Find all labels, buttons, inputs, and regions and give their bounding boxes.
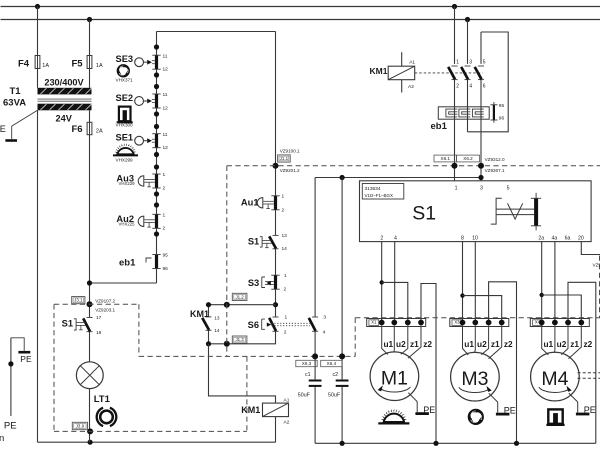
- svg-text:6a: 6a: [565, 235, 571, 241]
- svg-text:SE1: SE1: [116, 133, 134, 143]
- terminal labels X4: [543, 339, 592, 349]
- wire S1-4a to X4 u2: [554, 242, 556, 323]
- node S3 / S6 / KM1-aux junction: [273, 302, 278, 307]
- node c2 tap: [340, 175, 345, 180]
- svg-text:2A: 2A: [96, 129, 103, 135]
- svg-text:13: 13: [214, 316, 220, 322]
- icon signal lamp: [97, 408, 117, 426]
- svg-text:95: 95: [499, 103, 505, 109]
- svg-text:T1: T1: [10, 86, 22, 97]
- svg-text:J1.1: J1.1: [280, 156, 289, 161]
- node M1 jumper u1: [380, 280, 384, 284]
- wire F4 to primary: [37, 69, 39, 88]
- svg-text:u2: u2: [396, 339, 406, 349]
- icon saw blade for M1: [378, 409, 409, 424]
- wire SE-Au column: [156, 32, 158, 284]
- svg-text:X6.2: X6.2: [463, 156, 473, 161]
- svg-text:c2: c2: [333, 372, 339, 378]
- wire c2 to 0V rail: [341, 387, 343, 443]
- svg-text:2: 2: [284, 330, 287, 336]
- svg-text:2: 2: [380, 235, 383, 241]
- connector X6.2: [457, 155, 480, 162]
- wire c2 drop: [341, 178, 343, 380]
- terminal strip X4: [530, 319, 589, 327]
- wire terminal 20 exits right: [581, 242, 600, 255]
- svg-text:1: 1: [163, 213, 166, 219]
- overload eb1 auxiliary contact 95-96: [119, 253, 168, 272]
- svg-text:z1: z1: [410, 339, 419, 349]
- wire S6-4 to capacitor c1: [314, 331, 316, 379]
- wire c1 to 0V rail: [314, 387, 316, 443]
- svg-text:X1: X1: [371, 320, 377, 325]
- svg-text:VZ9201.2: VZ9201.2: [280, 168, 300, 173]
- svg-text:50uF: 50uF: [298, 393, 311, 399]
- svg-text:11: 11: [163, 132, 168, 138]
- svg-text:14: 14: [214, 328, 220, 334]
- node KM1-13 junction: [206, 302, 211, 307]
- node F5 tap on N bus: [87, 17, 92, 22]
- node X6.2 boundary crossing: [478, 163, 484, 169]
- svg-text:VZ9312.0: VZ9312.0: [485, 157, 505, 162]
- wire down to S6 pole 3: [314, 178, 316, 317]
- svg-text:14: 14: [282, 246, 288, 252]
- svg-text:17: 17: [96, 315, 102, 321]
- node eb1 output junction: [87, 280, 92, 285]
- terminal dots X4: [539, 320, 584, 326]
- svg-text:KM1: KM1: [190, 309, 209, 319]
- svg-text:LT1: LT1: [94, 394, 111, 405]
- svg-text:S3: S3: [248, 278, 259, 288]
- svg-text:PE: PE: [0, 124, 6, 134]
- wire X6.2 feed to S6/capacitors: [315, 177, 481, 179]
- svg-text:VZ93: VZ93: [593, 263, 600, 268]
- safety sensor Au3 (NC contact 1-2): [116, 172, 165, 191]
- svg-text:1: 1: [285, 315, 288, 321]
- wire N bus (second): [1, 19, 600, 21]
- svg-text:u1: u1: [543, 339, 553, 349]
- svg-text:50uF: 50uF: [328, 393, 341, 399]
- node J3.1 boundary crossing: [87, 301, 93, 307]
- node S1 terminal-3 junction: [478, 175, 483, 180]
- contactor aux contact KM1 13-14: [190, 305, 220, 344]
- svg-text:KM1: KM1: [370, 66, 388, 76]
- connector X6.1: [434, 155, 457, 162]
- mechanical link S6 poles (dotted): [272, 322, 311, 324]
- contactor main contact pole 1-2: [448, 7, 459, 181]
- node J1.1 boundary crossing: [273, 163, 279, 169]
- svg-text:F5: F5: [72, 59, 84, 70]
- wire 0V rail left section: [38, 441, 276, 443]
- node KM1-14 junction: [206, 341, 211, 346]
- contactor coil KM1: [241, 398, 289, 426]
- svg-text:95: 95: [163, 253, 169, 259]
- svg-text:4: 4: [323, 330, 326, 336]
- wire X4 z1 to 0V rail: [568, 282, 596, 443]
- node M3 jumper u1: [460, 293, 464, 297]
- svg-text:Au1: Au1: [241, 198, 259, 208]
- wire coil A2 to 0V rail: [275, 417, 277, 443]
- capacitor c1 50uF: [298, 372, 322, 399]
- node M3 z1 on 0V rail: [514, 441, 519, 446]
- svg-text:PE: PE: [4, 421, 17, 432]
- connector J1.1: [278, 155, 291, 162]
- ground PE of M3: [489, 393, 516, 415]
- terminal labels X3: [464, 339, 513, 349]
- transformer T1: [3, 78, 92, 124]
- wire S1-2a to X4 u1: [541, 242, 543, 323]
- terminal strip X3: [450, 319, 509, 327]
- overload eb1 contact 95-96: [490, 102, 504, 123]
- svg-text:z2: z2: [584, 339, 593, 349]
- svg-text:SE3: SE3: [116, 54, 134, 64]
- S1 terminal labels top: [455, 185, 510, 191]
- ground PE of M1: [408, 393, 435, 415]
- wire secondary left rail down: [37, 110, 39, 442]
- terminal strip X1: [367, 319, 426, 327]
- svg-text:VZ9100.1: VZ9100.1: [280, 148, 300, 153]
- svg-text:VHX225: VHX225: [118, 222, 135, 227]
- safety switch SE1 (NC contact 11-12): [116, 132, 169, 151]
- safety sensor Au2 (NC contact 1-2): [116, 213, 165, 232]
- lamp LT1: [76, 362, 110, 405]
- svg-text:V1D–F1–BGX: V1D–F1–BGX: [365, 193, 394, 198]
- svg-text:5: 5: [507, 185, 510, 191]
- svg-text:X6.3: X6.3: [302, 361, 312, 366]
- svg-text:J1.2: J1.2: [235, 294, 244, 299]
- svg-text:S1: S1: [62, 319, 73, 329]
- wire F4 drop: [37, 7, 39, 56]
- svg-text:n: n: [0, 433, 4, 444]
- S1 terminal labels bottom: [380, 235, 584, 241]
- node X6.3 boundary crossing: [312, 353, 318, 359]
- mechanical coupling M4 (dashed): [578, 373, 600, 379]
- wire S6-2 down and left to KM1 aux: [209, 331, 276, 344]
- svg-text:VZ9107.2: VZ9107.2: [95, 299, 115, 304]
- svg-text:J1.3: J1.3: [235, 337, 244, 342]
- icon mortise chisel for SE2: [117, 107, 133, 123]
- chain dots between SE/Au contacts: [154, 44, 159, 236]
- svg-text:VHX229: VHX229: [118, 181, 135, 186]
- terminal dots X1: [379, 320, 424, 326]
- svg-text:96: 96: [163, 266, 169, 272]
- thermal overload eb1: [431, 107, 490, 132]
- svg-text:KM1: KM1: [241, 405, 260, 415]
- svg-text:X3: X3: [454, 320, 460, 325]
- svg-text:5: 5: [483, 60, 486, 66]
- switch S3 (NC contact 1-2): [248, 273, 287, 293]
- svg-text:F6: F6: [72, 124, 83, 135]
- wire S1-18 to lamp: [89, 332, 91, 362]
- connector J3.9: [72, 422, 87, 429]
- svg-text:2: 2: [282, 208, 285, 214]
- connector X6.4: [321, 360, 342, 366]
- node lamp branch on 0V rail: [88, 440, 93, 445]
- terminal dots X3: [460, 320, 505, 326]
- contactor main contact pole 5-6: [475, 32, 486, 181]
- node F4 tap on L1 bus: [35, 4, 40, 9]
- ground PE of M4: [569, 393, 596, 415]
- svg-text:c1: c1: [305, 372, 311, 378]
- svg-text:u2: u2: [477, 339, 487, 349]
- svg-text:1A: 1A: [96, 63, 103, 69]
- svg-text:1A: 1A: [42, 63, 49, 69]
- switch S6 pole 1-2 (NO contact): [248, 315, 288, 336]
- contactor main contact pole 3-4: [461, 20, 472, 132]
- svg-text:11: 11: [163, 92, 168, 98]
- icon mortise chisel for M4: [546, 409, 564, 425]
- svg-text:X6.1: X6.1: [441, 156, 451, 161]
- node X6.1 boundary crossing: [452, 163, 458, 169]
- svg-text:18: 18: [96, 330, 102, 336]
- svg-text:6: 6: [483, 84, 486, 90]
- wire X1 z2 to 0V rail: [421, 284, 436, 444]
- svg-text:A2: A2: [408, 84, 414, 90]
- svg-text:2: 2: [456, 84, 459, 90]
- icon moulder cutter for SE3: [115, 64, 129, 78]
- node J1.2 boundary crossing: [224, 302, 230, 308]
- terminal labels X1: [383, 339, 432, 349]
- contactor coil KM1 (mirror at contacts): [370, 52, 416, 92]
- svg-text:u1: u1: [383, 339, 393, 349]
- svg-text:1: 1: [284, 273, 287, 279]
- fuse F4: [35, 56, 40, 69]
- svg-text:eb1: eb1: [119, 258, 136, 269]
- icon saw blade for SE1: [113, 143, 138, 155]
- svg-text:z2: z2: [423, 339, 432, 349]
- svg-text:12: 12: [163, 105, 169, 111]
- wire eb1-96 to F6 junction: [90, 282, 157, 284]
- svg-text:A1: A1: [409, 60, 415, 66]
- svg-text:20: 20: [578, 235, 584, 241]
- svg-text:4a: 4a: [552, 235, 558, 241]
- svg-text:11: 11: [163, 53, 168, 59]
- capacitor c2 50uF: [328, 372, 349, 399]
- motor leads X1: [382, 326, 421, 359]
- start button S1 (NO contact 13-14): [248, 233, 287, 252]
- node c2 on 0V rail: [340, 441, 345, 446]
- node KM1 pole-1 tap on L1 bus: [452, 4, 457, 9]
- svg-text:z2: z2: [504, 339, 513, 349]
- wire secondary right to F6: [89, 110, 91, 122]
- svg-text:10: 10: [472, 235, 478, 241]
- wire F5 to primary: [89, 69, 91, 88]
- wire jumper u1-z2 M4: [542, 295, 582, 323]
- wire safety chain top bridge: [157, 31, 276, 33]
- svg-text:z1: z1: [570, 339, 579, 349]
- svg-text:z1: z1: [491, 339, 500, 349]
- svg-text:X6.4: X6.4: [327, 361, 337, 366]
- svg-text:S1: S1: [248, 237, 259, 247]
- icon moulder cutter for M3: [466, 409, 483, 427]
- safety sensor Au1 (NC contact 1-2): [241, 194, 285, 214]
- switch S6 pole 3-4 (NO contact): [309, 315, 327, 336]
- svg-text:4: 4: [394, 235, 397, 241]
- wire middle column between S1 and S6: [275, 249, 277, 317]
- svg-text:PE: PE: [423, 405, 435, 415]
- wire lamp to 0V rail: [89, 389, 91, 443]
- node KM1 pole-3 tap on N bus: [465, 17, 470, 22]
- svg-text:VHX371: VHX371: [116, 77, 134, 82]
- safety switch SE3 (NC contact 11-12): [116, 53, 169, 72]
- connector J3.1: [72, 297, 85, 304]
- svg-text:PE: PE: [504, 405, 516, 415]
- svg-text:S6: S6: [248, 320, 259, 330]
- svg-text:2a: 2a: [538, 235, 544, 241]
- wire S1-4 to X1 u2: [394, 242, 396, 323]
- safety switch SE2 (NC contact 11-12): [116, 92, 169, 111]
- svg-text:8: 8: [461, 235, 464, 241]
- svg-text:S1: S1: [412, 202, 436, 224]
- svg-text:13: 13: [282, 233, 288, 239]
- node M4 jumper u1: [540, 293, 544, 297]
- connector X6.3: [296, 360, 317, 366]
- main switch S1 box: [360, 181, 592, 242]
- mechanical link coil to contacts (dashed): [415, 72, 483, 74]
- connector J1.3: [232, 336, 247, 343]
- wire jumper u1-z1 M1: [382, 282, 408, 322]
- cable boundary VZ9201.2 (dashed): [54, 166, 600, 432]
- fuse F6: [87, 122, 92, 134]
- svg-text:2: 2: [284, 287, 287, 293]
- svg-text:VZ9203.1: VZ9203.1: [95, 307, 115, 312]
- connector J1.2: [232, 293, 247, 300]
- svg-text:u2: u2: [557, 339, 567, 349]
- wire middle column upper: [275, 32, 277, 236]
- wire F6 down to eb1 junction: [89, 135, 91, 318]
- svg-text:2: 2: [163, 226, 166, 232]
- svg-text:1: 1: [455, 185, 458, 191]
- svg-text:63VA: 63VA: [3, 98, 26, 109]
- svg-text:VHX300: VHX300: [116, 123, 134, 128]
- node M1 z2 on 0V rail: [433, 441, 438, 446]
- wire X3 z1 to 0V rail: [489, 282, 517, 444]
- svg-text:24V: 24V: [56, 114, 73, 124]
- svg-text:SE2: SE2: [116, 93, 134, 103]
- svg-text:4: 4: [469, 84, 472, 90]
- wire series loop pole4 to pole5: [468, 32, 509, 132]
- wire F5 drop: [89, 20, 91, 56]
- motor leads X4: [542, 326, 582, 359]
- wire S1-10 to X3 u2: [474, 242, 476, 323]
- wire S1-2 to X1 u1: [381, 242, 383, 323]
- svg-text:F4: F4: [18, 59, 30, 70]
- svg-text:M1: M1: [381, 368, 408, 390]
- svg-text:M4: M4: [541, 368, 568, 390]
- motor M3: [451, 352, 500, 401]
- motor M4: [531, 352, 580, 401]
- lamp switch S1 (NO contact 17-18): [62, 315, 102, 336]
- wire jumper u1-z2 M3: [463, 296, 502, 323]
- svg-text:VHX299: VHX299: [116, 158, 134, 163]
- svg-text:3: 3: [469, 60, 472, 66]
- svg-text:12: 12: [163, 67, 169, 73]
- svg-text:PE: PE: [584, 405, 596, 415]
- node J1.3 boundary crossing: [224, 341, 230, 347]
- svg-text:VZ9307.1: VZ9307.1: [485, 168, 505, 173]
- svg-text:1: 1: [282, 194, 285, 200]
- switch mechanism symbol in S1: [491, 193, 541, 231]
- svg-text:J3.9: J3.9: [76, 424, 85, 429]
- svg-text:3: 3: [480, 185, 483, 191]
- svg-text:3: 3: [323, 315, 326, 321]
- svg-text:96: 96: [499, 116, 505, 122]
- wire 0V rail right section: [315, 442, 596, 444]
- node J3.9 boundary crossing: [87, 428, 93, 434]
- node PE branch: [8, 361, 13, 366]
- svg-text:J3.1: J3.1: [74, 298, 83, 303]
- ground PE at transformer secondary: [0, 110, 37, 140]
- svg-text:230/400V: 230/400V: [44, 78, 84, 88]
- machine PE rail: [11, 338, 32, 416]
- svg-text:2: 2: [163, 185, 166, 191]
- fuse F5: [87, 56, 92, 69]
- svg-text:A1: A1: [284, 398, 290, 404]
- svg-text:u1: u1: [464, 339, 474, 349]
- svg-text:12: 12: [163, 145, 169, 151]
- motor leads X3: [463, 326, 502, 359]
- wire L1 bus (top): [1, 6, 600, 8]
- wire S1-8 to X3 u1: [462, 242, 464, 323]
- svg-text:PE: PE: [20, 354, 32, 364]
- motor M1: [370, 352, 419, 401]
- svg-text:eb1: eb1: [431, 121, 448, 132]
- svg-text:1: 1: [163, 172, 166, 178]
- svg-text:1: 1: [456, 60, 459, 66]
- svg-text:M3: M3: [461, 368, 488, 390]
- svg-text:A2: A2: [284, 419, 290, 425]
- node X6.4 boundary crossing: [339, 353, 345, 359]
- wire KM1-14 to coil A1: [209, 344, 276, 403]
- wire S3 junction to KM1-13: [209, 304, 276, 306]
- svg-text:313634: 313634: [365, 186, 381, 192]
